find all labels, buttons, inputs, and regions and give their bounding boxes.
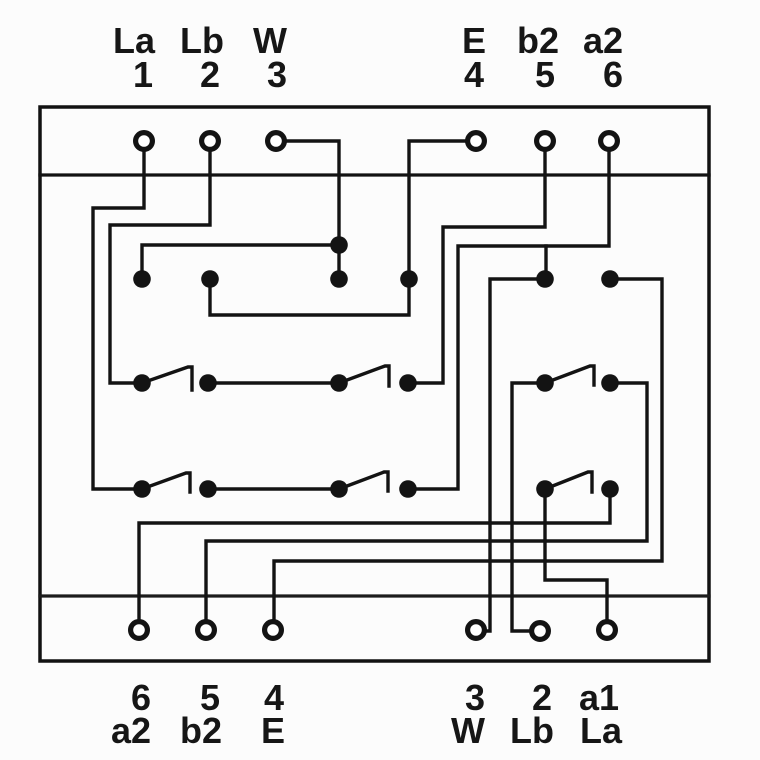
contact dot row2 c5 <box>536 270 554 288</box>
wire a2 branch: tap down to row 2 dot <box>544 246 547 279</box>
wire right row2 dot to bottom terminal 3/W <box>486 279 545 631</box>
switch blade row3 middle <box>339 366 389 386</box>
upper terminal strip line <box>40 173 709 176</box>
terminal circle bottom 3 (W) <box>468 622 485 639</box>
connector body outline <box>40 107 709 661</box>
contact dot row2 c6 <box>601 270 619 288</box>
wire row2 u-link: dot 2 to dot 4 under row <box>210 279 409 315</box>
wire La: terminal 1 down-left-down to contact row 4 <box>93 150 144 489</box>
wire right row3 outer dot to bottom terminal 5/b2 <box>206 383 647 621</box>
wire right row4 outer dot to bottom terminal 6/a2 <box>139 489 610 621</box>
contact dot row4 c1 <box>133 480 151 498</box>
contact dot row3 c6 <box>601 374 619 392</box>
contact dot row3 c3 <box>330 374 348 392</box>
terminal circle bottom 4 (E) <box>265 622 282 639</box>
svg-text:2: 2 <box>200 54 220 95</box>
wire E: terminal 4 left and down to row 2 dot <box>409 141 468 279</box>
svg-text:W: W <box>451 710 485 751</box>
svg-text:3: 3 <box>267 54 287 95</box>
wire a2: terminal 6 down-left-down to row 4 right dot <box>408 149 609 489</box>
wire row4 mid link <box>208 487 339 490</box>
svg-text:1: 1 <box>133 54 153 95</box>
terminal circle top 1 (La) <box>136 133 153 150</box>
contact dot row4 c3 <box>330 480 348 498</box>
junction node W net <box>330 236 348 254</box>
terminal circle top 5 (b2) <box>537 133 554 150</box>
contact dot row2 c3 <box>330 270 348 288</box>
wire right row4 dot to bottom terminal a1/La <box>545 489 607 621</box>
contact dot row4 c6 <box>601 480 619 498</box>
wire W branch: junction to left dot of row 2 <box>142 245 339 279</box>
terminal circle top 3 (W) <box>268 133 285 150</box>
svg-text:6: 6 <box>603 54 623 95</box>
switch blade row4 left <box>142 473 190 492</box>
terminal circle bottom 2 (Lb) <box>532 623 549 640</box>
svg-text:La: La <box>580 710 623 751</box>
switch blade row3 left <box>142 367 192 390</box>
svg-text:5: 5 <box>535 54 555 95</box>
terminal circle bottom 5 (b2) <box>198 622 215 639</box>
svg-text:a2: a2 <box>111 710 151 751</box>
terminal circle top 4 (E) <box>468 133 485 150</box>
switch blade row4 right block <box>545 472 592 492</box>
contact dot row4 c4 <box>399 480 417 498</box>
wire row3 mid link <box>208 381 339 384</box>
switch blade row3 right block <box>545 366 594 385</box>
contact dot row3 c4 <box>399 374 417 392</box>
wire W: terminal 3 right and down to node row 2 <box>284 141 339 279</box>
terminal circle top 6 (a2) <box>601 133 618 150</box>
switch blade row4 middle <box>339 472 388 491</box>
contact dot row2 c4 <box>400 270 418 288</box>
terminal circle bottom a1 (La) <box>599 622 616 639</box>
contact dot row3 c5 <box>536 374 554 392</box>
svg-text:b2: b2 <box>180 710 222 751</box>
wire Lb: terminal 2 down-left-down to contact row 3 <box>110 150 210 383</box>
wire right row2 outer dot to bottom terminal 4/E <box>274 279 662 621</box>
contact dot row3 c2 <box>199 374 217 392</box>
svg-text:Lb: Lb <box>510 710 554 751</box>
contact dot row4 c5 <box>536 480 554 498</box>
contact dot row3 c1 <box>133 374 151 392</box>
svg-text:E: E <box>261 710 285 751</box>
terminal circle top 2 (Lb) <box>202 133 219 150</box>
svg-text:4: 4 <box>464 54 484 95</box>
contact dot row4 c2 <box>199 480 217 498</box>
lower terminal strip line <box>40 594 709 597</box>
wire right row3 dot to bottom terminal 2/Lb <box>512 383 545 631</box>
wire b2: terminal 5 down-left-down to row 3 right dot <box>408 149 545 383</box>
terminal circle bottom 6 (a2) <box>131 622 148 639</box>
contact dot row2 c1 <box>133 270 151 288</box>
contact dot row2 c2 <box>201 270 219 288</box>
